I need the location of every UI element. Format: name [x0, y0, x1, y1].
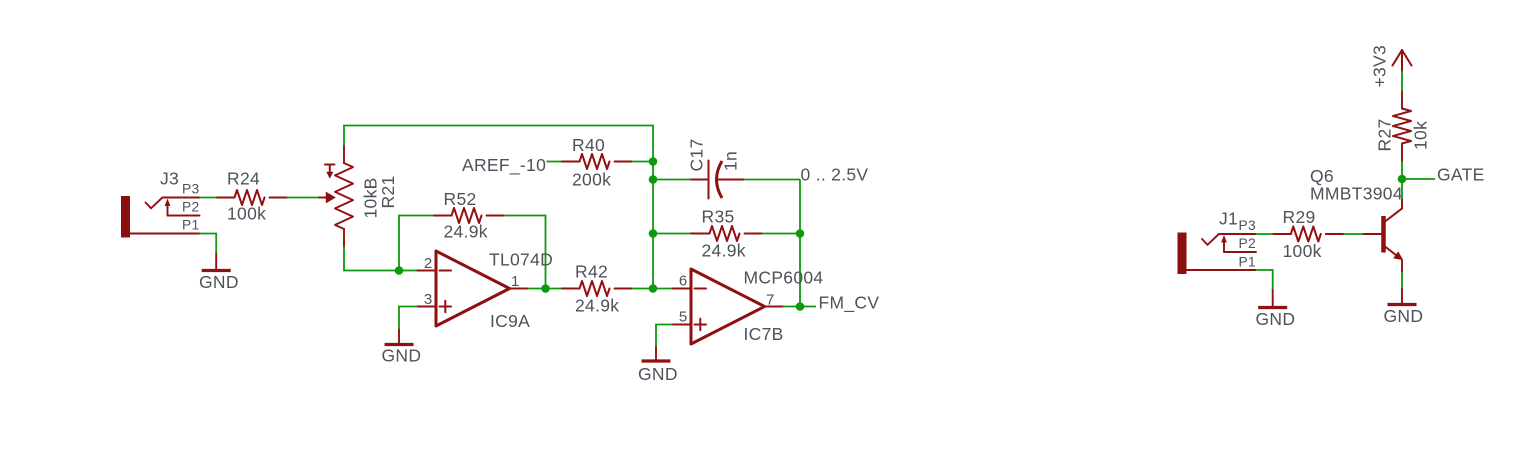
wire J3.P1 to ground — [200, 234, 217, 254]
svg-text:10k: 10k — [1411, 121, 1431, 150]
svg-text:24.9k: 24.9k — [702, 241, 746, 261]
svg-text:200k: 200k — [572, 170, 611, 190]
wire column to R35 — [653, 233, 691, 235]
resistor R35 — [691, 207, 762, 242]
ground GND under J1 — [1256, 290, 1296, 329]
svg-text:P3: P3 — [1239, 218, 1257, 233]
svg-text:R35: R35 — [702, 207, 735, 227]
wire J3.P3 to R24 — [200, 197, 218, 199]
svg-text:GND: GND — [199, 272, 239, 292]
svg-text:GND: GND — [638, 364, 678, 384]
svg-text:P3: P3 — [182, 182, 200, 197]
wire stub to FM_CV label — [800, 306, 816, 308]
junction right column at R35 row — [796, 229, 805, 238]
svg-text:P2: P2 — [182, 200, 199, 215]
resistor R40 — [562, 135, 632, 169]
wire Q6 emitter to ground — [1401, 272, 1403, 289]
wire R21 top feedback to node column — [344, 126, 653, 289]
svg-text:MMBT3904: MMBT3904 — [1310, 184, 1403, 204]
resistor R29 — [1273, 207, 1343, 242]
resistor R24 — [217, 169, 287, 206]
op-amp IC7B — [673, 269, 784, 344]
wire AREF_-10 to R40 — [547, 161, 563, 163]
wire R52 to IC9A output node — [504, 216, 546, 289]
wire IC9A pin3 to ground — [399, 307, 418, 330]
power +3V3 — [1370, 45, 1412, 88]
svg-text:AREF_-10: AREF_-10 — [462, 155, 546, 176]
svg-text:P1: P1 — [1239, 255, 1256, 270]
junction FM_CV node — [796, 302, 805, 311]
junction column at C17 row — [649, 175, 658, 184]
ground GND under IC7B — [638, 347, 678, 384]
ground GND under J3 — [199, 254, 239, 293]
wire column to IC7B pin6 — [653, 288, 673, 290]
svg-text:R24: R24 — [227, 169, 260, 189]
svg-text:24.9k: 24.9k — [444, 222, 488, 242]
wire feedback branch up to R52 — [399, 216, 434, 271]
wire J1.P3 to R29 — [1256, 233, 1273, 235]
svg-text:MCP6004: MCP6004 — [744, 268, 824, 288]
resistor R42 — [562, 262, 632, 297]
svg-text:R29: R29 — [1283, 207, 1316, 227]
junction column at R35 row — [649, 229, 658, 238]
wire R24 to R21 wiper — [287, 197, 319, 199]
svg-text:GATE: GATE — [1437, 165, 1485, 185]
svg-text:GND: GND — [1256, 309, 1296, 329]
svg-text:1n: 1n — [721, 151, 741, 171]
capacitor C17 — [687, 138, 745, 198]
svg-text:IC7B: IC7B — [744, 324, 784, 344]
wire IC7B pin5 to ground — [656, 325, 673, 348]
right column wire 0..2.5V net — [799, 180, 801, 307]
junction at IC9A output node — [541, 284, 550, 293]
junction at IC9A inverting input node — [395, 266, 404, 275]
wire R42 to column node — [632, 288, 653, 290]
svg-text:24.9k: 24.9k — [575, 296, 619, 316]
junction column at R40 row — [649, 157, 658, 166]
svg-text:R21: R21 — [378, 175, 398, 208]
svg-text:100k: 100k — [1283, 241, 1322, 261]
svg-text:P1: P1 — [182, 218, 199, 233]
wire R21 bottom to IC9A pin2 — [344, 247, 418, 271]
svg-text:TL074D: TL074D — [489, 250, 553, 270]
svg-text:R27: R27 — [1375, 118, 1395, 151]
wire R40 to column — [632, 161, 653, 163]
junction column at pin6 row — [649, 284, 658, 293]
svg-text:R42: R42 — [575, 262, 608, 282]
svg-text:R40: R40 — [572, 135, 605, 155]
junction GATE node — [1398, 175, 1407, 184]
wire IC9A output to R42 — [528, 288, 563, 290]
wire R29 to Q6 base — [1343, 233, 1363, 235]
wire C17 to right column — [744, 179, 800, 181]
connector J3 — [121, 169, 200, 238]
potentiometer R21 — [319, 146, 381, 247]
svg-text:5: 5 — [679, 309, 688, 326]
svg-text:7: 7 — [766, 292, 775, 309]
wire IC7B output to FM_CV node — [783, 306, 800, 308]
op-amp IC9A — [418, 251, 531, 331]
svg-text:1: 1 — [511, 273, 520, 290]
svg-text:IC9A: IC9A — [490, 311, 530, 331]
svg-text:0 .. 2.5V: 0 .. 2.5V — [801, 165, 869, 185]
svg-text:P2: P2 — [1239, 236, 1256, 251]
wire J1.P1 to ground — [1256, 270, 1273, 290]
connector J1 — [1178, 209, 1257, 275]
svg-text:C17: C17 — [687, 138, 707, 171]
svg-text:GND: GND — [1384, 306, 1424, 326]
svg-text:2: 2 — [424, 255, 433, 272]
svg-text:100k: 100k — [227, 204, 266, 224]
ground GND under IC9A — [382, 330, 422, 366]
svg-text:GND: GND — [382, 346, 422, 366]
resistor R27 — [1375, 91, 1412, 161]
svg-text:+3V3: +3V3 — [1370, 45, 1390, 88]
wire column to C17 — [653, 179, 691, 181]
transistor Q6 — [1310, 166, 1403, 272]
svg-text:3: 3 — [424, 291, 433, 308]
svg-text:J3: J3 — [160, 169, 179, 189]
svg-text:FM_CV: FM_CV — [819, 293, 880, 314]
ground GND under Q6 emitter — [1384, 289, 1424, 326]
wire R35 to right column — [762, 233, 800, 235]
svg-text:J1: J1 — [1219, 209, 1238, 229]
wire Q6 collector to R27 — [1401, 161, 1403, 199]
wire GATE node to label — [1402, 178, 1435, 180]
svg-text:R52: R52 — [444, 189, 477, 209]
resistor R52 — [434, 189, 504, 223]
wire R27 to +3V3 — [1401, 71, 1403, 92]
svg-text:6: 6 — [679, 273, 688, 290]
